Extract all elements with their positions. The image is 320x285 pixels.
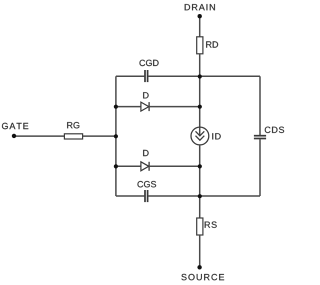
label D lower [143, 150, 148, 156]
label SOURCE [181, 274, 224, 280]
wire top rail right of CGD [148, 75, 260, 77]
wire current source to bottom junction [199, 145, 201, 196]
wire diode2 anode [116, 165, 141, 167]
wire bottom junction to RS [199, 196, 201, 218]
wire diode1 anode [116, 106, 141, 108]
diode D lower [141, 162, 149, 171]
label CGD [140, 60, 159, 66]
capacitor CGD [144, 70, 146, 82]
wire bottom rail left of CGS [116, 195, 144, 197]
wire right branch upper [259, 76, 261, 135]
node SOURCE terminal [197, 265, 201, 269]
label ID [212, 133, 220, 139]
label CDS [265, 127, 284, 133]
wire left bus [115, 76, 117, 196]
wire RS to source [199, 235, 201, 267]
label DRAIN [185, 4, 215, 10]
diode D upper [141, 102, 149, 111]
wire drain to RD [199, 16, 201, 37]
label D upper [143, 92, 148, 98]
node junction top [198, 74, 202, 78]
capacitor CGS [144, 190, 146, 202]
wire diode2 cathode [149, 165, 200, 167]
wire RD to top junction [199, 54, 201, 77]
resistor RS [197, 218, 203, 235]
label RD [206, 41, 218, 47]
node junction bottom [198, 194, 202, 198]
resistor RG [64, 134, 82, 139]
label CGS [138, 181, 157, 187]
wire gate to RG [14, 135, 64, 137]
node DRAIN terminal [198, 14, 202, 18]
resistor RD [197, 37, 203, 54]
node junction gate bus [114, 134, 118, 138]
node junction diode1 left [114, 105, 118, 109]
wire top rail left of CGD [116, 75, 144, 77]
node GATE terminal [12, 134, 16, 138]
wire bottom rail right of CGS [148, 195, 260, 197]
node junction diode1 right [198, 105, 202, 109]
capacitor CDS [254, 135, 266, 137]
wire top junction to current source [199, 76, 201, 136]
node junction diode2 left [114, 164, 118, 168]
label RS [205, 222, 217, 228]
wire right branch lower [259, 139, 261, 196]
current source ID [191, 127, 209, 145]
node junction diode2 right [198, 164, 202, 168]
label GATE [2, 123, 28, 129]
label RG [67, 122, 79, 128]
wire diode1 cathode [149, 106, 200, 108]
wire RG to left bus [83, 135, 116, 137]
